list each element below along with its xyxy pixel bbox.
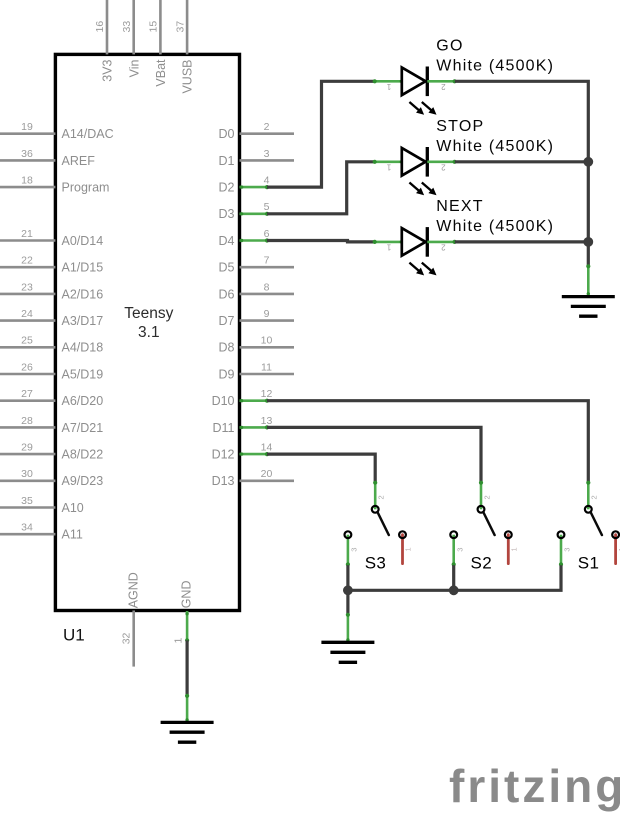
svg-text:White (4500K): White (4500K)	[436, 218, 554, 235]
svg-text:18: 18	[21, 175, 33, 187]
svg-text:2: 2	[441, 162, 446, 171]
ground (below chip GND)	[161, 694, 214, 742]
junction LED bus at NEXT	[583, 237, 593, 247]
svg-text:fritzing: fritzing	[449, 760, 620, 812]
pin 37 VUSB (top)	[174, 0, 194, 94]
svg-text:AREF: AREF	[62, 154, 96, 168]
svg-text:D0: D0	[219, 127, 235, 141]
svg-text:5: 5	[264, 201, 270, 213]
wire D12 to switch S3 pin 2	[267, 454, 375, 482]
pin 35 A10 (left)	[0, 495, 84, 515]
pin 29 A8/D22 (left)	[0, 442, 103, 462]
svg-text:33: 33	[121, 21, 133, 33]
svg-text:1: 1	[510, 547, 519, 551]
svg-text:A11: A11	[62, 528, 83, 542]
svg-text:16: 16	[94, 21, 106, 33]
svg-text:34: 34	[21, 522, 33, 534]
svg-text:22: 22	[21, 255, 33, 267]
svg-text:2: 2	[441, 243, 446, 252]
svg-text:A14/DAC: A14/DAC	[62, 127, 114, 141]
svg-text:1: 1	[386, 82, 391, 91]
wire D3 to LED STOP anode	[267, 162, 374, 214]
svg-text:A9/D23: A9/D23	[62, 474, 104, 488]
junction LED bus at STOP	[583, 157, 593, 167]
chip U1 Teensy 3.1 body	[55, 54, 239, 610]
svg-text:25: 25	[21, 335, 33, 347]
pin 13 D11 (right, connected)	[212, 415, 272, 435]
pin 30 A9/D23 (left)	[0, 468, 103, 488]
svg-text:11: 11	[261, 361, 272, 373]
svg-text:D10: D10	[212, 394, 235, 408]
junction ground bus at S2	[449, 585, 459, 595]
svg-text:7: 7	[264, 255, 270, 267]
svg-text:2: 2	[482, 495, 491, 499]
pin 8 D6 (right, unconnected)	[219, 281, 294, 301]
svg-text:A2/D16: A2/D16	[62, 287, 104, 301]
svg-text:30: 30	[21, 468, 33, 480]
pin 7 D5 (right, unconnected)	[219, 255, 294, 275]
svg-text:D5: D5	[219, 261, 235, 275]
svg-text:S3: S3	[365, 553, 387, 572]
svg-text:19: 19	[21, 121, 33, 133]
svg-text:Vin: Vin	[127, 59, 141, 77]
pin 12 D10 (right, connected)	[212, 388, 273, 408]
svg-text:S1: S1	[578, 553, 600, 572]
svg-text:D12: D12	[212, 448, 235, 462]
wire S1 pin 3 to ground bus	[348, 565, 561, 590]
svg-text:26: 26	[21, 361, 33, 373]
svg-text:36: 36	[21, 148, 33, 160]
svg-text:14: 14	[261, 442, 273, 454]
svg-text:NEXT: NEXT	[436, 198, 483, 215]
pin 15 VBat (top)	[148, 0, 168, 87]
pin 11 D9 (right, unconnected)	[219, 361, 294, 381]
svg-text:21: 21	[21, 228, 33, 240]
wire LED NEXT cathode to ground bus	[455, 240, 589, 243]
pin 3 D1 (right, unconnected)	[219, 148, 294, 168]
wire D10 to switch S1 pin 2	[267, 401, 588, 483]
svg-text:1: 1	[173, 638, 185, 644]
wire LED STOP cathode to ground bus	[455, 160, 589, 163]
svg-text:GND: GND	[180, 581, 194, 609]
svg-text:White (4500K): White (4500K)	[436, 57, 554, 74]
pin 18 Program (left)	[0, 175, 109, 195]
reference designator U1	[63, 626, 85, 645]
pin 19 A14/DAC (left)	[0, 121, 114, 141]
switch S3	[345, 481, 413, 573]
svg-text:6: 6	[264, 228, 270, 240]
svg-text:3V3: 3V3	[101, 59, 115, 81]
svg-text:3: 3	[350, 548, 359, 552]
wire LED GO cathode to ground bus	[455, 81, 589, 266]
svg-text:VBat: VBat	[154, 59, 168, 87]
svg-text:A5/D19: A5/D19	[62, 367, 104, 381]
svg-text:A4/D18: A4/D18	[62, 341, 104, 355]
pin 28 A7/D21 (left)	[0, 415, 103, 435]
wire S2 pin 3 to ground bus	[452, 565, 455, 590]
svg-text:3: 3	[264, 148, 270, 160]
svg-text:A3/D17: A3/D17	[62, 314, 104, 328]
svg-text:37: 37	[174, 21, 186, 33]
svg-text:3: 3	[455, 548, 464, 552]
svg-text:12: 12	[261, 388, 273, 400]
svg-text:D3: D3	[219, 207, 235, 221]
pin 20 D13 (right, unconnected)	[212, 468, 294, 488]
svg-text:2: 2	[441, 82, 446, 91]
pin 24 A3/D17 (left)	[0, 308, 103, 328]
svg-text:1: 1	[404, 547, 413, 551]
pin 33 Vin (top)	[121, 0, 141, 77]
svg-text:24: 24	[21, 308, 33, 320]
svg-text:1: 1	[386, 243, 391, 252]
svg-text:Teensy: Teensy	[124, 305, 173, 322]
pin 36 AREF (left)	[0, 148, 95, 168]
LED2 STOP White (4500K)	[373, 118, 555, 198]
switch S1	[558, 481, 620, 573]
svg-text:U1: U1	[63, 626, 85, 645]
svg-text:35: 35	[21, 495, 33, 507]
wire S3 pin 3 to ground bus	[346, 565, 349, 590]
pin 2 D0 (right, unconnected)	[219, 121, 294, 141]
pin 5 D3 (right, connected)	[219, 201, 270, 221]
pin 1 GND (bottom, connected)	[173, 581, 194, 644]
ground (below switches)	[321, 613, 374, 663]
svg-text:1: 1	[386, 162, 391, 171]
svg-text:D6: D6	[219, 287, 235, 301]
wire GND pin to ground	[186, 640, 189, 696]
svg-text:9: 9	[264, 308, 270, 320]
svg-text:2: 2	[377, 495, 386, 499]
svg-text:White (4500K): White (4500K)	[436, 138, 554, 155]
svg-text:29: 29	[21, 442, 33, 454]
wire D4 to LED NEXT anode	[267, 241, 374, 242]
svg-text:GO: GO	[436, 37, 463, 54]
svg-text:D13: D13	[212, 474, 235, 488]
svg-text:A6/D20: A6/D20	[62, 394, 104, 408]
ground (right, LED bus)	[562, 264, 615, 316]
pin 21 A0/D14 (left)	[0, 228, 103, 248]
pin 14 D12 (right, connected)	[212, 442, 273, 462]
pin 25 A4/D18 (left)	[0, 335, 103, 355]
wire D11 to switch S2 pin 2	[267, 427, 481, 482]
svg-text:A0/D14: A0/D14	[62, 234, 104, 248]
pin 10 D8 (right, unconnected)	[219, 335, 294, 355]
svg-text:A8/D22: A8/D22	[62, 448, 104, 462]
svg-text:D11: D11	[212, 421, 234, 435]
pin 27 A6/D20 (left)	[0, 388, 103, 408]
svg-text:15: 15	[148, 21, 160, 33]
pin 34 A11 (left)	[0, 522, 83, 542]
fritzing logo	[449, 760, 620, 812]
svg-text:2: 2	[590, 495, 599, 499]
pin 4 D2 (right, connected)	[219, 175, 270, 195]
svg-text:Program: Program	[62, 181, 110, 195]
svg-text:20: 20	[261, 468, 273, 480]
junction ground bus at S3	[343, 585, 353, 595]
pin 9 D7 (right, unconnected)	[219, 308, 294, 328]
svg-text:D4: D4	[219, 234, 235, 248]
svg-text:27: 27	[21, 388, 33, 400]
svg-text:10: 10	[261, 335, 273, 347]
switch S2	[450, 481, 518, 573]
wire ground bus stem	[346, 590, 349, 615]
svg-text:D2: D2	[219, 181, 235, 195]
svg-text:A7/D21: A7/D21	[62, 421, 104, 435]
LED3 NEXT White (4500K)	[373, 198, 555, 278]
svg-text:STOP: STOP	[436, 118, 484, 135]
wire D2 to LED GO anode	[267, 81, 374, 187]
svg-text:D9: D9	[219, 367, 235, 381]
svg-text:3.1: 3.1	[138, 324, 160, 341]
svg-text:23: 23	[21, 281, 33, 293]
svg-text:AGND: AGND	[127, 572, 141, 608]
LED1 GO White (4500K)	[373, 37, 555, 117]
svg-text:D1: D1	[219, 154, 235, 168]
pin 22 A1/D15 (left)	[0, 255, 103, 275]
svg-text:32: 32	[120, 632, 132, 644]
pin 26 A5/D19 (left)	[0, 361, 103, 381]
svg-text:3: 3	[563, 548, 572, 552]
svg-text:D8: D8	[219, 341, 235, 355]
svg-text:A1/D15: A1/D15	[62, 261, 104, 275]
pin 16 3V3 (top)	[94, 0, 114, 82]
pin 32 AGND (bottom, unconnected)	[120, 572, 140, 666]
svg-text:A10: A10	[62, 501, 84, 515]
svg-text:13: 13	[261, 415, 273, 427]
svg-text:D7: D7	[219, 314, 235, 328]
svg-text:8: 8	[264, 281, 270, 293]
svg-text:S2: S2	[471, 553, 493, 572]
pin 6 D4 (right, connected)	[219, 228, 270, 248]
svg-text:28: 28	[21, 415, 33, 427]
svg-text:VUSB: VUSB	[181, 60, 195, 94]
svg-text:2: 2	[264, 121, 270, 133]
pin 23 A2/D16 (left)	[0, 281, 103, 301]
svg-text:4: 4	[264, 175, 270, 187]
